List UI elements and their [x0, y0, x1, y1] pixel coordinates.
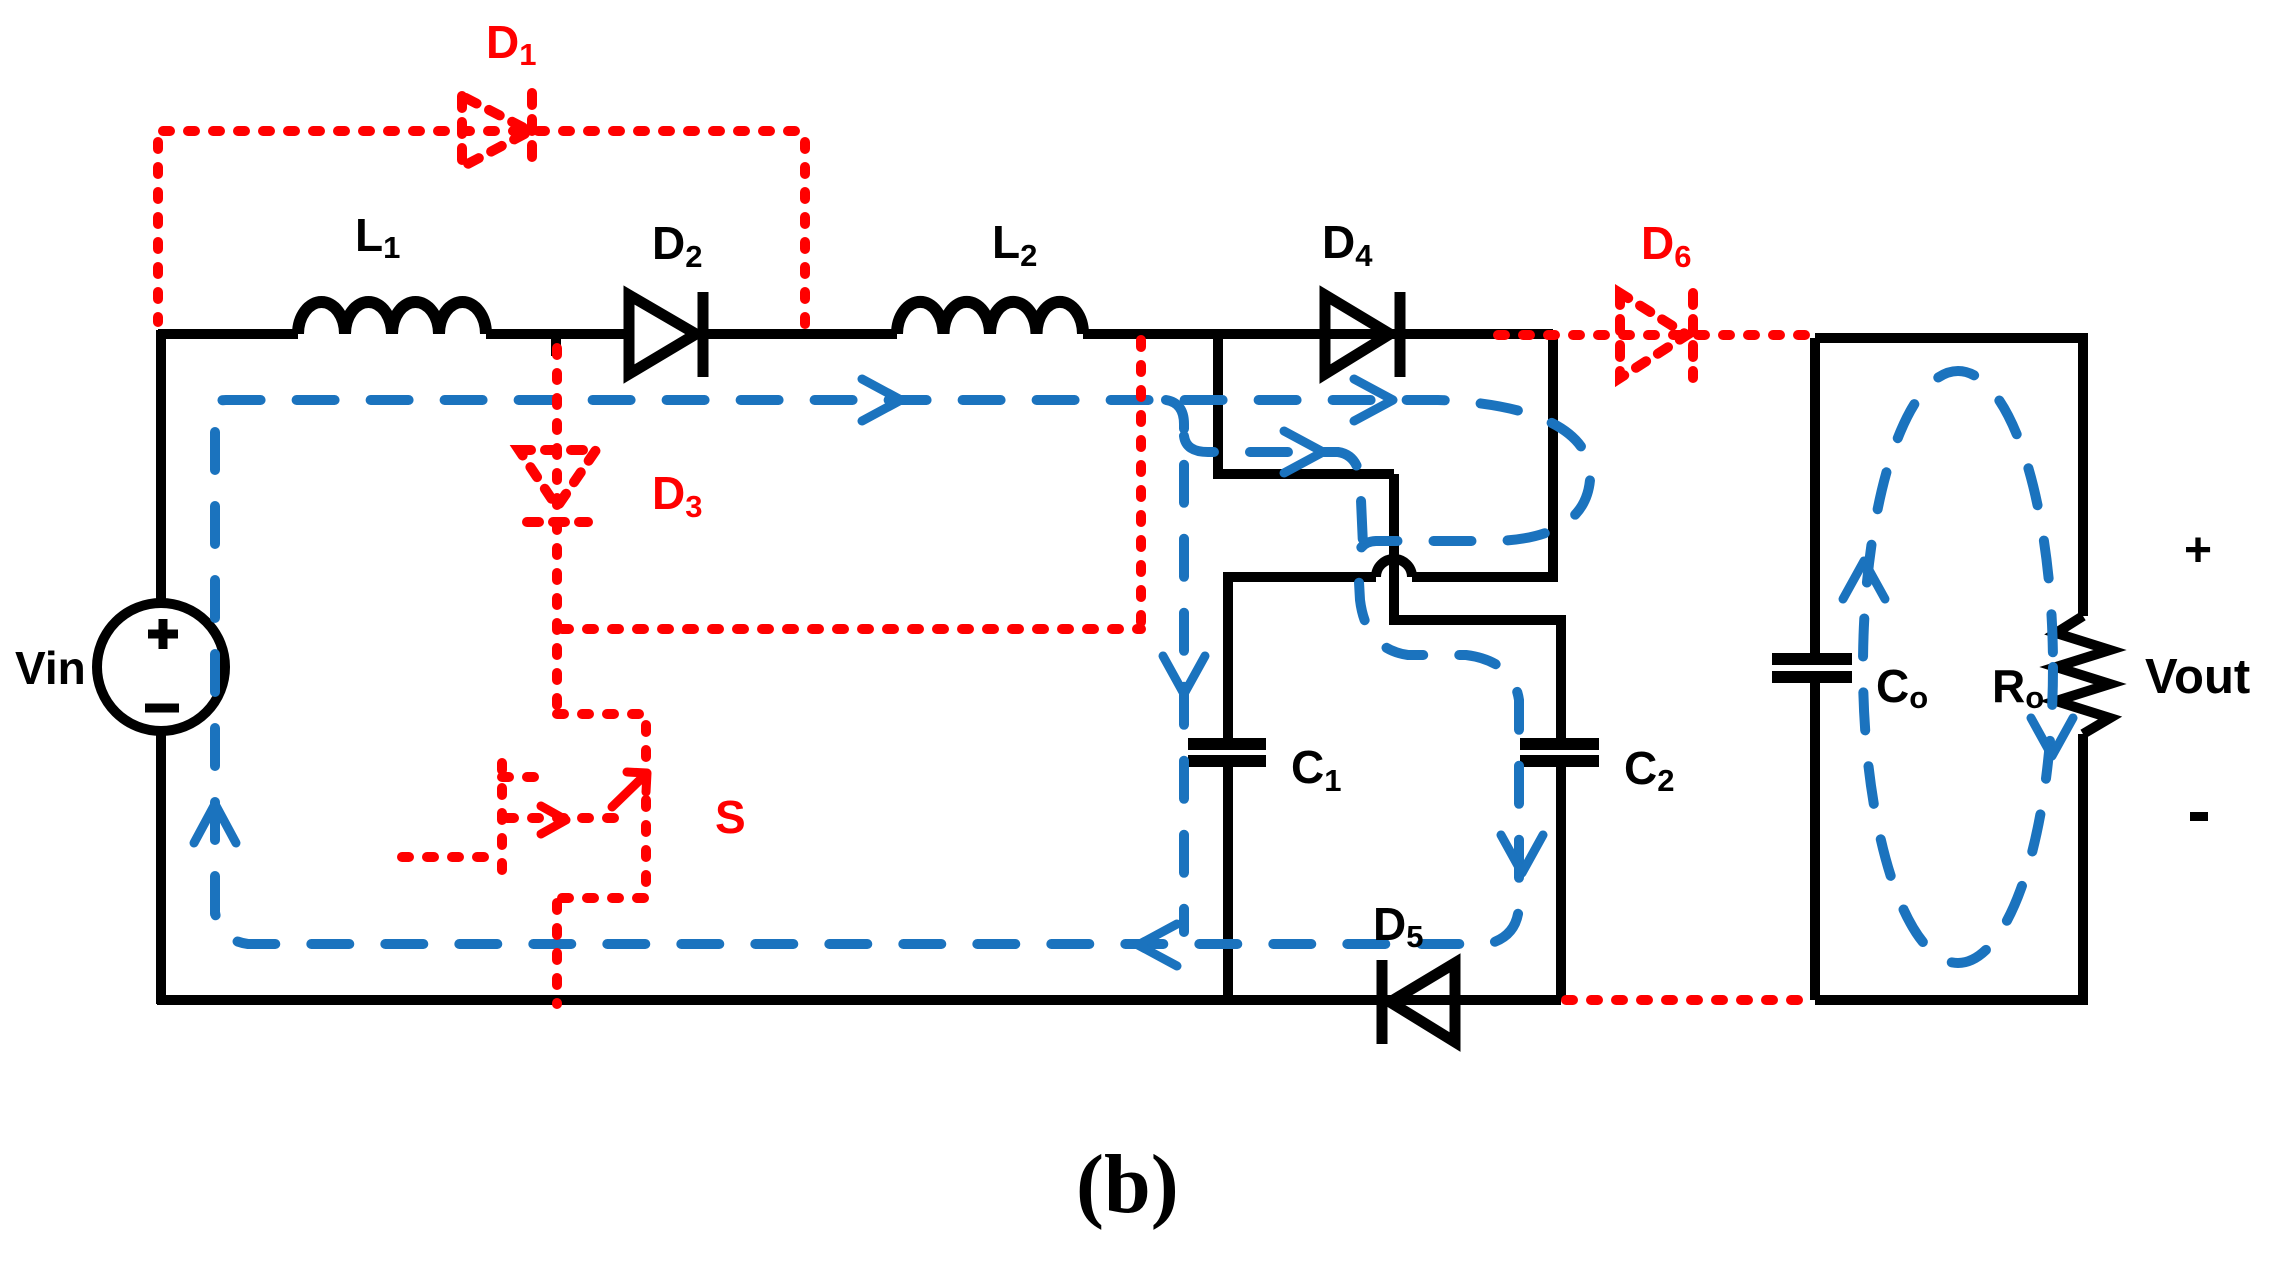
svg-text:D4: D4	[1322, 216, 1373, 273]
svg-text:Co: Co	[1876, 660, 1928, 715]
svg-text:D6: D6	[1641, 217, 1691, 274]
svg-text:+: +	[2184, 524, 2212, 577]
svg-text:D5: D5	[1373, 898, 1423, 954]
svg-text:D2: D2	[652, 217, 702, 274]
svg-text:Vout: Vout	[2145, 650, 2250, 704]
svg-text:S: S	[715, 791, 746, 843]
svg-text:D3: D3	[652, 467, 702, 524]
svg-text:L1: L1	[355, 209, 400, 265]
svg-text:Ro: Ro	[1992, 660, 2044, 715]
svg-text:C2: C2	[1624, 742, 1674, 798]
svg-text:Vin: Vin	[15, 642, 86, 694]
svg-text:L2: L2	[992, 216, 1037, 273]
svg-text:(b): (b)	[1076, 1138, 1179, 1231]
svg-text:D1: D1	[486, 16, 536, 72]
svg-text:C1: C1	[1291, 741, 1341, 798]
